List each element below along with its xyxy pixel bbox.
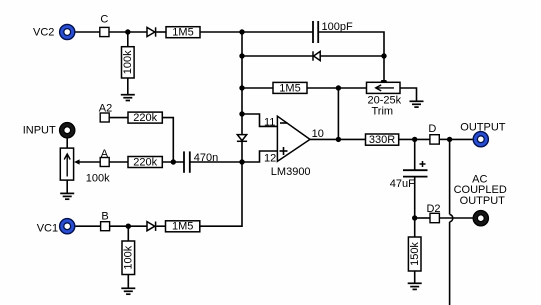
svg-text:OUTPUT: OUTPUT (460, 195, 506, 207)
ground (below 100k top-left) (121, 95, 135, 101)
connector VC1 (37, 219, 75, 235)
wire trim pot to ground stub (400, 88, 417, 101)
op-amp U1 LM3900 (264, 116, 324, 178)
junction right vertical / feedback diode (381, 53, 386, 58)
wire output junction to OUTPUT connector (450, 138, 473, 140)
junction bus / feedback diode (239, 53, 244, 58)
svg-text:10: 10 (312, 128, 324, 140)
svg-text:100k: 100k (86, 173, 110, 185)
junction A2-branch / A wire (171, 159, 176, 164)
wire bus down to VC1 corner (200, 162, 242, 226)
node D2 (426, 203, 440, 223)
diode (bus, pointing down) (237, 135, 247, 142)
wire feedback diode to right vertical (320, 55, 384, 57)
connector INPUT (23, 123, 75, 138)
diode (VC1 branch) (147, 222, 156, 231)
wire 470n to bus (190, 161, 242, 163)
svg-text:D: D (428, 123, 436, 135)
svg-text:VC1: VC1 (37, 223, 58, 235)
wire node D to output junction (439, 138, 449, 140)
wire 47uF down to D2 junction (414, 177, 416, 218)
wire node B to diode (VC1) (110, 225, 148, 227)
resistor 330R (366, 134, 399, 146)
diode (VC2 branch) (147, 27, 156, 36)
wire 100pF to right corner and down (318, 32, 384, 56)
wire node D2 to AC output connector (439, 217, 472, 219)
connector OUTPUT (460, 121, 506, 146)
wire 330R to cap junction (399, 138, 430, 140)
wire 100k (bottom) to ground (127, 275, 129, 289)
svg-text:D2: D2 (426, 203, 440, 215)
resistor 1M5 (feedback) (273, 82, 307, 94)
svg-text:220k: 220k (133, 112, 157, 124)
wire cap junction down to 47uF (414, 139, 416, 170)
junction bus / feedback 1M5 (239, 85, 244, 90)
svg-text:A: A (101, 148, 109, 160)
wire bus top to 100pF (242, 31, 313, 33)
wire node A to 220k (109, 161, 128, 163)
svg-text:C: C (100, 14, 108, 26)
wire D2 junction down to 150k (414, 218, 416, 237)
ground (below 150k) (408, 283, 422, 289)
wire bus diode to pin-12 junction (241, 141, 243, 162)
capacitor 470n (184, 151, 218, 172)
wire 220k (A) to 470n (162, 161, 184, 163)
svg-text:LM3900: LM3900 (271, 166, 311, 178)
node C (100, 14, 109, 37)
trimmer 20-25k (367, 80, 402, 117)
junction feedback / output branch (336, 85, 341, 90)
svg-text:150k: 150k (409, 242, 421, 266)
capacitor 47uF (390, 161, 428, 190)
potentiometer 100k (input) (60, 148, 110, 184)
capacitor 100pF (313, 21, 353, 43)
junction bus / pin 12 / 470n (239, 159, 244, 164)
wire INPUT connector to pot (66, 138, 68, 148)
wire junction to trim pot (338, 87, 366, 89)
wire bus to feedback resistor 1M5 (242, 87, 273, 89)
wire output junction to 330R (338, 138, 365, 140)
node A2 (99, 102, 112, 122)
svg-text:A2: A2 (99, 102, 112, 114)
wire B-junction down to 100k (bottom) (127, 226, 129, 241)
svg-text:12: 12 (264, 152, 276, 164)
wire resistor 1M5 (VC2) to bus node (200, 31, 242, 33)
svg-text:11: 11 (264, 116, 275, 128)
wire pot to ground (66, 180, 68, 193)
resistor 100k (node C to ground) (122, 47, 135, 78)
svg-text:1M5: 1M5 (172, 27, 193, 39)
node B (101, 210, 110, 230)
connector AC COUPLED OUTPUT (454, 174, 507, 226)
junction bus / pin 11 branch (239, 111, 244, 116)
wire 150k to ground (414, 271, 416, 283)
resistor 100k (node B to ground) (122, 241, 135, 275)
svg-text:100pF: 100pF (322, 21, 353, 33)
wire node A2 to 220k (109, 117, 128, 119)
resistor 1M5 (VC2 branch) (166, 27, 200, 39)
wire diode D(VC2) to resistor 1M5 (VC2 branch) (156, 31, 166, 33)
junction output / feedback branch (336, 137, 341, 142)
junction OUTPUT branch (447, 137, 452, 142)
svg-text:100k: 100k (122, 50, 134, 74)
svg-text:1M5: 1M5 (279, 82, 300, 94)
junction 330R / 47uF branch (412, 137, 417, 142)
junction B-branch / 100k (126, 224, 131, 229)
svg-text:100k: 100k (123, 245, 135, 269)
junction bus / 100pF (239, 29, 244, 34)
wire junction C-branch down to 100k (127, 32, 129, 47)
wire feedback junction down to output node (337, 88, 339, 139)
resistor 220k (A branch) (128, 157, 162, 169)
wire diode (VC1) to 1M5 (156, 225, 165, 227)
node A (100, 148, 109, 167)
junction bus / node C branch (125, 29, 130, 34)
diode (feedback, pointing left) (313, 51, 320, 60)
svg-text:Trim: Trim (372, 105, 394, 117)
ground (below 100k bottom-left) (121, 288, 135, 294)
wire VC1 connector to node B (75, 225, 100, 227)
wire pin 12 step from bus (242, 151, 277, 162)
wire feedback 1M5 to junction (307, 87, 338, 89)
resistor 150k (408, 237, 421, 271)
wire node C to diode D(VC2) (109, 31, 147, 33)
resistor 1M5 (VC1 branch) (166, 221, 200, 233)
wire output vertical down (upper part) (449, 139, 451, 214)
wire output vertical down to bottom edge (449, 222, 451, 305)
wire VC2 connector to node C (75, 31, 100, 33)
svg-text:1M5: 1M5 (172, 221, 193, 233)
wire 220k (A2) right corner down to A-junction (162, 118, 173, 162)
wire hop over D2 wire (450, 214, 453, 222)
wire op-amp output to feedback junction (310, 138, 338, 140)
wire 100k (top) to ground (127, 78, 129, 95)
svg-text:47uF: 47uF (390, 178, 415, 190)
svg-text:220k: 220k (133, 157, 157, 169)
wire pot wiper to node A (79, 161, 100, 163)
wire pin 11 step from bus (242, 114, 277, 126)
wire bus vertical (top segment) (241, 32, 243, 135)
wire bus to feedback diode (242, 55, 313, 57)
resistor 220k (A2 branch) (128, 112, 162, 124)
wire right vertical down to trim wiper (383, 56, 385, 82)
node D (428, 123, 439, 144)
svg-text:OUTPUT: OUTPUT (460, 121, 506, 133)
connector VC2 (33, 24, 75, 39)
junction 47uF / D2 / 150k (412, 215, 417, 220)
ground (below pot) (60, 193, 74, 199)
wire D2 junction to node D2 (415, 217, 430, 219)
svg-text:470n: 470n (194, 152, 218, 164)
ground (right of trim) (410, 101, 424, 107)
svg-text:INPUT: INPUT (23, 125, 56, 137)
svg-text:B: B (101, 210, 108, 222)
svg-text:330R: 330R (369, 134, 395, 146)
svg-text:VC2: VC2 (33, 27, 54, 39)
